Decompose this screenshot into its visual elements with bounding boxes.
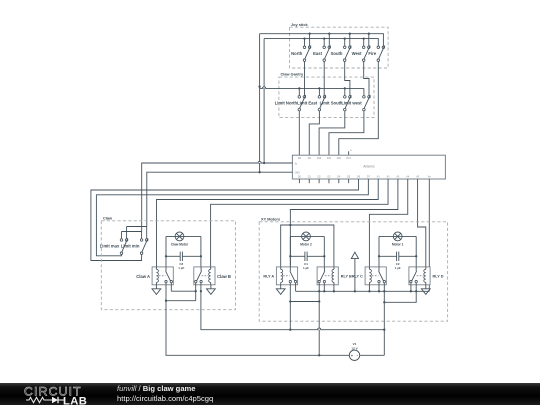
svg-text:GND: GND: [295, 173, 300, 175]
wire rail2 (to 5V drop): [264, 39, 378, 46]
switch SW South: [343, 46, 346, 49]
junction coil rail / A3 feed: [289, 224, 291, 226]
svg-text:Claw: Claw: [103, 215, 113, 220]
relay K4 RLY B: [317, 267, 338, 285]
wire RLY D coil to ground: [425, 285, 427, 289]
switch SW East: [323, 46, 326, 49]
svg-text:1 µF: 1 µF: [178, 266, 184, 270]
wire Claw B left throw stub: [195, 283, 197, 291]
junction rail2-drop / 5V line: [263, 162, 265, 164]
wire upper cluster rail (GND side): [127, 226, 147, 228]
svg-text:Limit max: Limit max: [100, 244, 120, 249]
ground RLY D: [421, 289, 430, 295]
wire claw motor left node: [165, 236, 167, 267]
wire claw motor right node: [200, 236, 202, 267]
ground claw A: [152, 289, 161, 295]
junction riser corner: [383, 329, 385, 331]
svg-text:12 V: 12 V: [351, 346, 357, 350]
switch Limit max: [120, 239, 123, 242]
junction rail1-drop / GND line: [258, 171, 260, 173]
joystick enclosure box: [290, 27, 389, 68]
junction +12V arrow on rail: [354, 290, 356, 292]
wire RLY C coil stub: [368, 285, 370, 292]
wire xy crosslink rail: [290, 301, 319, 303]
svg-text:1 µF: 1 µF: [395, 266, 401, 270]
relay K3 RLY A: [276, 267, 297, 285]
svg-text:Joy stick: Joy stick: [291, 22, 308, 27]
claw gantry enclosure box: [279, 77, 374, 118]
wire rail1 top (to GND drop): [260, 34, 384, 46]
CircuitLab logo: [19, 383, 103, 405]
wire A2 pin to Claw B relay coil: [211, 179, 388, 267]
wire D6 pin to Limit min common: [91, 179, 359, 261]
motor M1 Motor 1: [393, 232, 402, 241]
svg-text:Limit East: Limit East: [297, 100, 318, 105]
wire RLY A right throw stub: [295, 283, 297, 292]
junction Limit North on gantry rail: [298, 87, 300, 89]
wires gantry commons to IC top pins: [298, 111, 300, 155]
junction RLY B left throw: [318, 290, 320, 292]
wire North common to Limit North right throw: [304, 62, 306, 96]
capacitor C1: [290, 255, 305, 257]
svg-text:Claw Motor: Claw Motor: [171, 242, 189, 246]
wire Limit max throw stubs: [121, 232, 123, 239]
wire battery plus riser: [383, 330, 385, 356]
svg-text:D11: D11: [327, 158, 332, 160]
wire Limit North left throw stub: [298, 88, 300, 95]
junction claw A left throw / crosslink: [165, 300, 167, 302]
svg-text:Limit min: Limit min: [121, 244, 140, 249]
junction claw right node: [200, 255, 202, 257]
wire East throws to rails: [323, 39, 325, 46]
wire claw inner throw rail: [171, 290, 195, 292]
wire RLY B coil stub: [333, 285, 335, 292]
IC top pin6 stub: [348, 151, 350, 155]
power supply +12V arrow: [351, 252, 358, 258]
wire RLY C common throw stub: [378, 283, 380, 292]
switch Limit East: [318, 96, 321, 99]
svg-text:East: East: [313, 51, 322, 56]
wire West common jog to Limit west right throw: [364, 62, 369, 96]
wire rail2 drop to 5V line: [263, 39, 265, 163]
crossover hop 5V line over rail1-drop: [258, 161, 261, 163]
wire Vin pin to +12V rail: [428, 179, 430, 291]
XY motors enclosure box: [259, 222, 447, 321]
svg-text:Limit west: Limit west: [341, 100, 362, 105]
wire rail1 drop to GND line: [259, 34, 261, 173]
wire RLY A/B coil rail: [281, 225, 334, 267]
wire Claw B coil to ground: [210, 285, 212, 289]
svg-text:RLY B: RLY B: [341, 275, 352, 279]
wire GND line from IC left pin: [147, 172, 293, 226]
wire lower cluster rail (5V side): [122, 231, 142, 233]
motor M2 Motor 2: [302, 232, 311, 241]
relay K5 RLY C: [365, 267, 386, 285]
svg-text:Claw Gantry: Claw Gantry: [281, 72, 305, 77]
wire motor1 rail: [379, 235, 416, 237]
junction Limit South on gantry rail: [344, 87, 346, 89]
svg-text:West: West: [352, 51, 363, 56]
wire gantry left-throw rail: [260, 87, 364, 89]
svg-text:RLY D: RLY D: [433, 275, 444, 279]
svg-text:Claw A: Claw A: [136, 274, 150, 279]
wire RLY B left throw to battery minus rail: [318, 283, 320, 356]
motor M3 Claw Motor: [175, 232, 184, 241]
wire motor1 right node: [415, 236, 417, 267]
junction claw crosslink: [195, 290, 197, 292]
claw enclosure box: [101, 221, 235, 310]
wire RLY D left throw stub: [410, 283, 412, 292]
svg-text:Motor 2: Motor 2: [300, 242, 312, 246]
wire A1 pin to Claw A relay coil: [157, 179, 379, 267]
switch SW North: [303, 46, 306, 49]
ground RLY A: [276, 289, 285, 295]
junction claw B right throw: [200, 290, 202, 292]
svg-text:D13: D13: [347, 158, 352, 160]
crossover hop gantry rail over rail2-drop: [263, 87, 266, 89]
wire claw lower crosslink rail: [166, 300, 196, 302]
switch Limit min: [140, 239, 143, 242]
svg-text:Arduino: Arduino: [363, 164, 375, 168]
svg-text:XY Motors: XY Motors: [261, 216, 280, 221]
wire A4 pin to RLY C coil: [369, 179, 407, 267]
wire motor2 right node: [323, 236, 325, 267]
switch Limit North: [298, 96, 301, 99]
wire RLY A coil to ground: [280, 285, 282, 289]
svg-text:RLY A: RLY A: [263, 275, 274, 279]
wire North throws to rails: [304, 39, 306, 46]
svg-text:Motor 1: Motor 1: [392, 242, 404, 246]
junction crosslink on riser drop: [383, 301, 385, 303]
junction dots West: [363, 37, 365, 39]
wire Fire common to IC pin: [339, 62, 379, 156]
junction dots North: [303, 37, 305, 39]
wire A5 pin to RLY C/D coil rail and RLY D coil: [418, 179, 426, 267]
wire Limit west left throw stub: [363, 88, 365, 95]
battery V1 12V: [349, 350, 359, 360]
schematic title: [117, 384, 213, 403]
svg-text:Limit South: Limit South: [320, 100, 343, 105]
wire +12V arrow stem: [354, 259, 356, 292]
wire claw motor rail: [166, 235, 201, 237]
wire A3 pin to RLY A/B coil rail: [290, 179, 398, 267]
relay K1 Claw A: [152, 267, 173, 285]
wire Limit South left throw stub: [344, 88, 346, 95]
svg-text:Claw B: Claw B: [217, 274, 231, 279]
junction dots East: [323, 37, 325, 39]
wire motor2 rail: [290, 235, 324, 237]
wire East common to Limit East right throw: [323, 62, 325, 96]
junction dots South: [344, 37, 346, 39]
wire Claw A left throw to battery minus rail: [166, 283, 349, 356]
wire D7 pin to Limit max common: [96, 179, 368, 256]
svg-text:RLY C: RLY C: [352, 275, 363, 279]
wire RLY B right throw stub: [323, 283, 325, 292]
switch Limit west: [363, 96, 366, 99]
IC bottom pin stubs (unused D0-D5): [298, 179, 300, 183]
wire West throws to rails: [363, 39, 365, 46]
junction rail1-drop / gantry rail: [258, 86, 260, 88]
wire South common jog to Limit South right throw: [345, 62, 350, 96]
switch SW Fire: [377, 46, 380, 49]
svg-text:D10: D10: [317, 158, 322, 160]
crossover hop battery plus rail over RLY B throw drop: [318, 328, 321, 330]
wire RLY A left throw to plus rail: [289, 283, 291, 330]
junction claw left node: [165, 255, 167, 257]
junction RLY A left throw: [289, 300, 291, 302]
svg-text:LAB: LAB: [63, 396, 87, 405]
relay K2 Claw B: [194, 267, 215, 285]
wire 5V line from IC left pin: [142, 163, 293, 232]
wire +12V rail: [296, 290, 430, 292]
wire battery right lead: [360, 354, 385, 356]
svg-text:Limit North: Limit North: [275, 100, 298, 105]
wire motor2 left node: [289, 236, 291, 267]
wire Claw A coil to ground: [155, 285, 157, 289]
svg-text:South: South: [331, 51, 343, 56]
wire RLY C right throw to battery plus riser: [383, 283, 385, 330]
svg-text:1 µF: 1 µF: [303, 266, 309, 270]
wire Limit East left throw stub: [318, 88, 320, 95]
wire claw crosslink drop: [195, 291, 197, 301]
svg-text:Fire: Fire: [368, 51, 376, 56]
wire Claw A right throw to rail: [170, 283, 172, 291]
switch Limit South: [344, 96, 347, 99]
relay K6 RLY D: [409, 267, 430, 285]
wire Claw B right throw to battery plus rail: [201, 283, 384, 330]
wire Limit min throw stubs: [141, 232, 143, 239]
switch SW West: [362, 46, 365, 49]
junction Limit East on gantry rail: [318, 87, 320, 89]
svg-text:D12: D12: [337, 158, 342, 160]
wire RLY D common throw crosslink: [384, 283, 416, 303]
capacitor C3: [166, 255, 180, 257]
svg-text:North: North: [291, 51, 303, 56]
capacitor C2: [379, 255, 397, 257]
op-amp U1 microcontroller box (Arduino): [292, 155, 445, 179]
wire motor1 left node: [378, 236, 380, 267]
wire South throws to rails: [344, 39, 346, 46]
ground claw B: [207, 289, 216, 295]
